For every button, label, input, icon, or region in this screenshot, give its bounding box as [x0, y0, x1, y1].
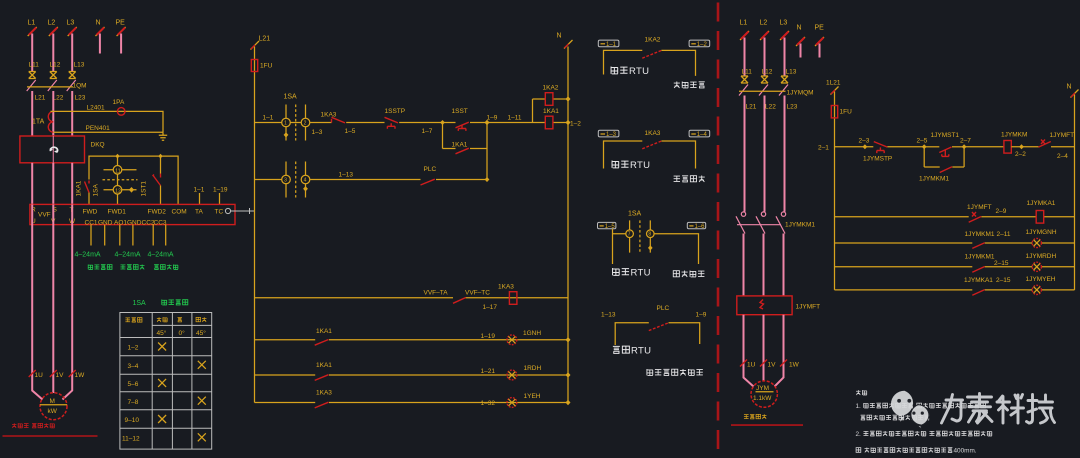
svg-text:1U: 1U: [747, 362, 756, 369]
terminal X L11 right: [741, 76, 748, 83]
svg-text:1FU: 1FU: [260, 63, 273, 70]
terminal box 1-1: [598, 40, 619, 47]
wire L3 drop: [71, 34, 73, 72]
wire rung1 d: [399, 122, 442, 124]
separator dashed red line: [717, 3, 720, 458]
svg-text:1KA3: 1KA3: [498, 284, 514, 291]
svg-text:1SSTP: 1SSTP: [385, 108, 406, 115]
contactor 1JYMKM1 pole3: [781, 212, 785, 216]
svg-text:1–17: 1–17: [483, 304, 498, 311]
wire CC2 stub: [152, 225, 154, 246]
svg-text:FWD: FWD: [83, 209, 98, 216]
wire rung R1 d: [1011, 146, 1038, 148]
wire 1V motor: [52, 204, 54, 393]
svg-text:1KA1: 1KA1: [452, 142, 468, 149]
svg-text:2–4: 2–4: [1057, 153, 1068, 160]
svg-text:1–19: 1–19: [481, 333, 496, 340]
lamp 1JYMYEH: [1032, 285, 1041, 294]
svg-text:1JYMKM1: 1JYMKM1: [965, 254, 995, 261]
thermal overload 1JYMFT box: [737, 296, 792, 315]
table 1SA frame: [120, 313, 212, 450]
notes title shuoming: [856, 390, 867, 395]
svg-text:1–5: 1–5: [345, 128, 356, 135]
label speed set: [88, 264, 93, 269]
svg-text:1KA1: 1KA1: [316, 362, 332, 369]
terminal 1U: [29, 370, 36, 377]
svg-text:2–7: 2–7: [960, 138, 971, 145]
switch 1SA linkage dashed: [295, 105, 297, 141]
label from RTU: [613, 346, 620, 353]
svg-text:1–19: 1–19: [213, 187, 228, 194]
svg-text:1–1: 1–1: [606, 42, 617, 48]
motor note red text: [12, 423, 16, 428]
contactor 1JYMKM1 pole1: [741, 212, 745, 216]
svg-text:8: 8: [648, 232, 651, 238]
contact 1ST1: [153, 174, 161, 186]
junction diamonds rung1: [566, 96, 571, 101]
switch 1SA contact 4: [305, 162, 307, 198]
contact VVF-TA/TC: [453, 298, 466, 304]
svg-text:1U: 1U: [35, 372, 44, 379]
reactor box DKQ: [20, 136, 85, 163]
svg-text:1SA: 1SA: [284, 94, 298, 101]
svg-text:AO1: AO1: [114, 220, 127, 227]
wire right rail N right ladder: [1074, 95, 1076, 290]
svg-text:1W: 1W: [75, 372, 86, 379]
switch contact 8: [649, 220, 651, 252]
watermark text li hao ke ji: [942, 394, 1055, 424]
notes line3: [856, 431, 992, 438]
motor JYM note: [744, 415, 749, 419]
svg-text:1KA2: 1KA2: [543, 85, 559, 92]
lamp 1GNH: [507, 335, 517, 345]
wire rung R1 a: [835, 146, 874, 148]
svg-text:1–9: 1–9: [696, 312, 707, 319]
wire L3 right drop: [784, 38, 786, 76]
switch contact 7: [629, 220, 631, 252]
wire 11-12 to FWD1: [117, 174, 119, 204]
svg-text:L12: L12: [762, 69, 773, 76]
svg-text:1–32: 1–32: [481, 400, 496, 407]
breaker 1QM trip bar: [27, 86, 73, 88]
wire right rail N: [567, 47, 569, 403]
terminal L2 right: [760, 31, 769, 40]
contactor 1JYMKM1 pole2: [761, 212, 765, 216]
svg-text:1KA3: 1KA3: [321, 112, 337, 119]
svg-text:2–5: 2–5: [917, 138, 928, 145]
svg-text:TA: TA: [195, 209, 203, 216]
coil block vertical: [532, 99, 534, 123]
junction diamond below 1: [284, 132, 289, 137]
breaker 1QM pole2: [48, 80, 57, 91]
svg-text:VVF–TC: VVF–TC: [465, 290, 490, 297]
junction diamond 2-2: [1019, 144, 1024, 149]
svg-text:1TA: 1TA: [32, 119, 45, 126]
wire L1 drop: [31, 34, 33, 72]
lamp 1JYMRDH: [1032, 262, 1041, 271]
wire rung1 c: [346, 122, 384, 124]
wire L23 drop: [71, 91, 73, 136]
svg-text:1–1: 1–1: [263, 115, 274, 122]
motor JYM circle: [751, 381, 777, 407]
svg-text:PE: PE: [116, 20, 126, 27]
svg-text:1PA: 1PA: [113, 99, 125, 106]
svg-text:GND: GND: [98, 220, 113, 227]
svg-text:L13: L13: [74, 62, 85, 69]
svg-text:L13: L13: [786, 69, 797, 76]
svg-text:1–2: 1–2: [697, 42, 708, 48]
label run indication: [674, 82, 680, 88]
wire W2 drop: [783, 234, 785, 296]
breaker 1JYMQM trip bar: [739, 90, 786, 92]
wire rungB: [255, 339, 569, 341]
svg-text:1SA: 1SA: [133, 300, 147, 307]
fuse 1FU: [251, 60, 257, 72]
svg-text:COM: COM: [172, 209, 187, 216]
wire CC3 stub: [165, 225, 167, 246]
contactor linkage: [737, 224, 781, 226]
svg-text:PEN401: PEN401: [86, 125, 111, 132]
breaker 1JYMQM pole3: [779, 85, 788, 96]
wire L2 right drop: [764, 38, 766, 76]
svg-text:1–21: 1–21: [481, 368, 496, 375]
svg-text:FWD2: FWD2: [148, 209, 167, 216]
svg-text:1.1kW: 1.1kW: [753, 395, 772, 402]
svg-text:1–3: 1–3: [312, 129, 323, 136]
svg-text:DKQ: DKQ: [91, 142, 105, 149]
ground: [159, 132, 167, 140]
wire U drop to vfd: [31, 163, 33, 205]
svg-text:FWD1: FWD1: [108, 209, 127, 216]
table title name: [162, 300, 167, 305]
label to RTU 3: [613, 268, 620, 275]
svg-text:L3: L3: [780, 20, 788, 27]
label fault indication: [674, 176, 680, 181]
svg-text:1KA3: 1KA3: [316, 390, 332, 397]
svg-text:1–2: 1–2: [570, 121, 581, 128]
wire L21 drop: [31, 91, 33, 136]
wire TC stub: [219, 193, 221, 204]
svg-text:2–3: 2–3: [859, 138, 870, 145]
svg-text:N: N: [1067, 84, 1072, 91]
svg-text:JYM: JYM: [756, 385, 769, 392]
switch contact 11: [113, 166, 122, 175]
wire rung2 a: [255, 179, 282, 181]
svg-text:1KA2: 1KA2: [645, 37, 661, 44]
terminal L21: [251, 41, 260, 50]
svg-text:RTU: RTU: [631, 268, 651, 279]
terminal L3: [68, 27, 77, 36]
wire rungA: [255, 297, 569, 299]
svg-text:1–13: 1–13: [339, 172, 354, 179]
label to RTU 1: [611, 66, 618, 73]
switch linkage dashed: [103, 179, 138, 181]
svg-text:7–8: 7–8: [128, 399, 139, 406]
wire L2 drop: [52, 34, 54, 72]
wire rung R1 c: [964, 146, 1004, 148]
wire PE right stub: [819, 44, 821, 58]
svg-text:N: N: [557, 33, 562, 40]
breaker 1QM pole3: [67, 80, 76, 91]
svg-text:N: N: [797, 25, 802, 32]
wire rung1 e: [487, 122, 533, 124]
svg-text:RTU: RTU: [630, 160, 650, 171]
svg-text:1JYMKM1: 1JYMKM1: [919, 176, 949, 183]
svg-text:L22: L22: [765, 104, 776, 111]
svg-text:RTU: RTU: [629, 66, 649, 77]
svg-text:1–4: 1–4: [697, 132, 708, 138]
wire 1ST1 to FWD2: [160, 186, 162, 205]
svg-text:L21: L21: [35, 95, 46, 102]
wire rungD: [255, 402, 569, 404]
svg-text:1FU: 1FU: [840, 109, 853, 116]
breaker 1QM pole1: [27, 80, 36, 91]
junction diamond R1 block left: [922, 144, 927, 149]
svg-text:TC: TC: [215, 209, 224, 216]
svg-text:2–9: 2–9: [996, 208, 1007, 215]
terminal 1L21: [831, 87, 839, 95]
wire V drop to vfd: [52, 163, 54, 205]
watermark wechat big bubble: [891, 391, 913, 422]
wire rung R2: [835, 216, 1075, 218]
terminal 1V: [50, 370, 57, 377]
svg-text:1JYMST1: 1JYMST1: [931, 132, 960, 139]
junction diamond R1: [863, 144, 868, 149]
terminal box 1-5: [598, 222, 616, 228]
svg-text:1GNH: 1GNH: [523, 330, 541, 337]
svg-text:3–4: 3–4: [128, 363, 139, 370]
wire L22 drop: [52, 91, 54, 136]
wire L2401: [51, 111, 164, 132]
svg-text:5–6: 5–6: [128, 381, 139, 388]
svg-text:400mm.: 400mm.: [954, 448, 977, 455]
svg-text:L21: L21: [746, 104, 757, 111]
svg-text:L2: L2: [48, 20, 56, 27]
svg-text:1RDH: 1RDH: [524, 365, 542, 372]
switch contact 12: [113, 186, 122, 195]
svg-text:1–13: 1–13: [601, 312, 616, 319]
svg-text:1.: 1.: [856, 403, 862, 410]
svg-text:1KA1: 1KA1: [316, 328, 332, 335]
wire rung R5: [835, 289, 1075, 291]
svg-text:1QM: 1QM: [73, 83, 87, 90]
svg-text:1JYMKM: 1JYMKM: [1001, 132, 1027, 139]
wire L21 right drop: [744, 96, 746, 212]
wire L1 right drop: [744, 38, 746, 76]
wire L22 right drop: [764, 96, 766, 212]
wire AO1 stub: [119, 225, 121, 246]
svg-text:CC3: CC3: [154, 220, 167, 227]
svg-text:1JYMFT: 1JYMFT: [967, 204, 992, 211]
svg-text:1JYMSTP: 1JYMSTP: [863, 156, 892, 163]
wire rung R4: [835, 266, 1075, 268]
label current fb: [154, 265, 159, 270]
junction diamond below 8: [648, 245, 653, 250]
svg-text:1–2: 1–2: [128, 345, 139, 352]
ammeter 1PA: [117, 108, 125, 116]
svg-text:1JYMYEH: 1JYMYEH: [1026, 276, 1056, 283]
fuse 1FU right: [831, 106, 837, 118]
svg-text:2: 2: [304, 121, 307, 127]
motor M divider: [40, 404, 67, 406]
svg-text:7: 7: [628, 232, 631, 238]
mouse cursor overlay: [0, 0, 2, 2]
svg-text:11–12: 11–12: [122, 436, 140, 443]
svg-text:11: 11: [115, 168, 120, 174]
svg-text:1–7: 1–7: [422, 128, 433, 135]
lamp 1RDH: [507, 370, 517, 380]
svg-text:1KA3: 1KA3: [645, 130, 661, 137]
junction diamond below 4: [303, 186, 308, 191]
svg-text:45°: 45°: [196, 329, 206, 337]
svg-text:VVF–TA: VVF–TA: [424, 290, 449, 297]
wire V2 drop: [763, 234, 765, 296]
svg-text:4–24mA: 4–24mA: [115, 252, 141, 259]
lamp 1JYMGNH: [1032, 238, 1041, 247]
motor M circle: [40, 393, 67, 420]
svg-text:1W: 1W: [789, 362, 800, 369]
terminal X L13: [69, 72, 76, 79]
svg-text:3: 3: [284, 178, 287, 184]
junction diamond rungB: [566, 337, 571, 342]
wire 1SA rtu right: [654, 234, 698, 264]
wire W2 to motor: [775, 315, 784, 387]
wire rung2 c: [436, 179, 487, 181]
terminal X L12 right: [761, 76, 768, 83]
wire control top bus: [89, 156, 178, 204]
wire PEN401: [53, 131, 163, 133]
notes line2: [861, 415, 930, 420]
svg-text:VVF: VVF: [38, 212, 51, 219]
wire U2 to motor: [744, 315, 754, 387]
svg-text:L2401: L2401: [87, 105, 105, 112]
terminal 1W right: [780, 360, 787, 367]
svg-text:PLC: PLC: [657, 305, 670, 312]
motor JYM divider: [756, 391, 774, 393]
svg-text:0°: 0°: [179, 329, 186, 337]
wire rung R1 e: [1051, 146, 1075, 148]
svg-text:1–3: 1–3: [606, 132, 617, 138]
svg-text:PLC: PLC: [424, 166, 437, 173]
svg-text:1SST: 1SST: [452, 108, 468, 115]
junction diamond R1 block right: [962, 144, 967, 149]
svg-text:1V: 1V: [768, 362, 777, 369]
svg-text:2–11: 2–11: [997, 231, 1011, 238]
svg-text:L1: L1: [28, 20, 36, 27]
wire PE stub: [120, 34, 122, 54]
VFD terminal box: [30, 204, 235, 224]
switch linkage rtu dashed: [639, 220, 641, 252]
wire rung2 b: [310, 179, 421, 181]
terminal X L13 right: [781, 76, 788, 83]
wire N stub: [99, 34, 101, 54]
wire rung R3: [835, 242, 1075, 244]
breaker 1JYMQM pole2: [759, 85, 768, 96]
svg-text:4: 4: [304, 178, 307, 184]
shielded wire to PLC: [231, 208, 254, 214]
svg-text:1–9: 1–9: [487, 115, 498, 122]
terminal N mid: [564, 40, 573, 49]
TC output circle: [225, 208, 230, 213]
wire GND2 stub: [132, 225, 134, 246]
label speed fb: [120, 265, 125, 269]
switch 1SA contact 3: [285, 162, 287, 198]
svg-text:RTU: RTU: [631, 346, 651, 357]
svg-text:4–24mA: 4–24mA: [148, 252, 174, 259]
svg-text:GND: GND: [127, 220, 142, 227]
label vfd remote start stop: [647, 369, 653, 375]
wire left rail L21: [254, 47, 256, 403]
svg-text:1JYMFT: 1JYMFT: [796, 304, 821, 311]
contact 1JYMKM1 aux: [924, 166, 964, 168]
terminal box 1-4: [689, 130, 710, 137]
svg-text:1L21: 1L21: [826, 80, 841, 87]
parallel block verticals: [443, 123, 488, 182]
svg-text:1JYMKM1: 1JYMKM1: [785, 222, 815, 229]
svg-text:12: 12: [115, 188, 121, 194]
mouse cursor: [50, 147, 58, 153]
label remote indication: [673, 271, 679, 277]
svg-text:L11: L11: [29, 62, 40, 69]
switch 1SA linkage2 dashed: [295, 162, 297, 198]
svg-text:2–15: 2–15: [996, 277, 1011, 284]
wire left rail right ladder: [834, 92, 836, 290]
notes line4: [856, 447, 977, 454]
svg-text:45°: 45°: [157, 329, 167, 337]
label to RTU 2: [612, 160, 619, 167]
wire 1SA rtu left: [613, 229, 626, 264]
svg-text:1JYMRDH: 1JYMRDH: [1026, 253, 1057, 260]
svg-text:1JYMKA1: 1JYMKA1: [1027, 200, 1056, 207]
motor note underline: [3, 435, 98, 437]
svg-text:2–1: 2–1: [818, 145, 829, 152]
switch 1SA contact 1: [285, 105, 287, 141]
notes line1: [856, 403, 986, 410]
wire rung R1 b: [887, 146, 924, 148]
svg-text:1JYMKM1: 1JYMKM1: [965, 231, 995, 238]
wire TA stub: [199, 193, 201, 204]
wire L22 through reactor: [52, 136, 54, 163]
svg-text:1JYMFT: 1JYMFT: [1050, 132, 1075, 139]
lamp 1YEH: [507, 398, 517, 408]
pushbutton 1JYMSTP: [874, 142, 888, 154]
wire 1U motor: [32, 204, 42, 399]
wire N right stub: [800, 44, 802, 58]
terminal 1V right: [760, 360, 767, 367]
svg-text:2–2: 2–2: [1015, 151, 1026, 158]
start block verticals: [924, 147, 964, 167]
terminal N right: [796, 37, 805, 46]
svg-text:L23: L23: [787, 104, 798, 111]
thermal element symbol: [760, 300, 764, 310]
CT 1TA: [48, 111, 53, 132]
svg-text:9–10: 9–10: [125, 417, 140, 424]
breaker 1JYMQM pole1: [739, 85, 748, 96]
svg-text:1JYMQM: 1JYMQM: [787, 90, 814, 97]
svg-text:1–11: 1–11: [508, 115, 522, 122]
terminal X L12: [50, 72, 57, 79]
terminal N right ladder: [1071, 90, 1079, 98]
wire rung1 a: [255, 122, 282, 124]
wire CC1 stub: [90, 225, 92, 246]
wire rung1 b: [310, 122, 332, 124]
terminal L3 right: [780, 31, 789, 40]
svg-text:1–5: 1–5: [605, 224, 616, 230]
svg-text:N: N: [96, 20, 101, 27]
motor JYM underline: [731, 424, 803, 426]
svg-text:1V: 1V: [56, 372, 65, 379]
svg-text:L3: L3: [67, 20, 75, 27]
